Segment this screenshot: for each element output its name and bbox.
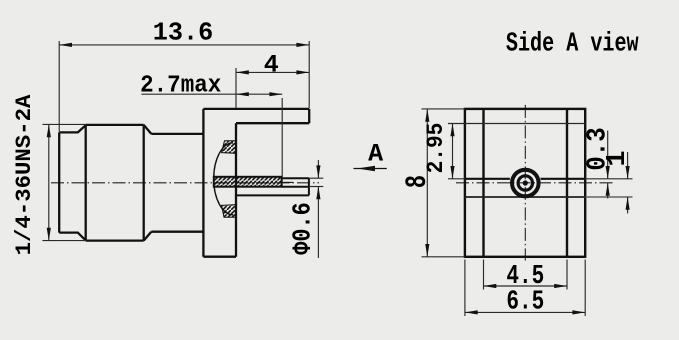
svg-text:8: 8 xyxy=(400,175,434,188)
svg-text:2.95: 2.95 xyxy=(423,123,449,174)
svg-text:2.7max: 2.7max xyxy=(140,72,221,100)
svg-text:1/4-36UNS-2A: 1/4-36UNS-2A xyxy=(12,94,37,255)
svg-text:6.5: 6.5 xyxy=(506,287,544,317)
svg-text:4: 4 xyxy=(264,51,279,80)
svg-text:Φ0.6: Φ0.6 xyxy=(289,202,318,254)
svg-text:1: 1 xyxy=(603,150,633,166)
svg-text:A: A xyxy=(368,140,383,169)
svg-text:13.6: 13.6 xyxy=(153,18,214,47)
svg-text:Side A view: Side A view xyxy=(506,29,639,60)
